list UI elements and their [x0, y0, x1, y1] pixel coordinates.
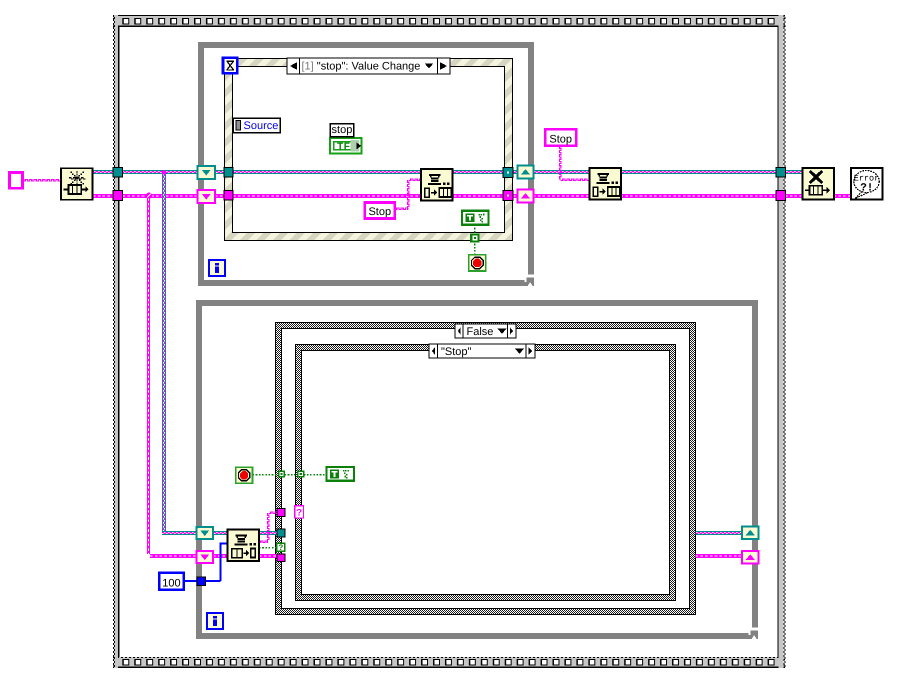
- svg-text:False: False: [467, 326, 494, 338]
- svg-text:?: ?: [278, 543, 283, 552]
- svg-text:TF: TF: [337, 142, 350, 153]
- svg-text:Source: Source: [244, 120, 279, 132]
- svg-text:stop: stop: [332, 124, 353, 136]
- svg-text:100: 100: [162, 577, 180, 589]
- svg-text:?: ?: [296, 507, 302, 518]
- svg-text:[1] "stop": Value Change: [1] "stop": Value Change: [302, 61, 421, 73]
- svg-text:"Stop": "Stop": [441, 346, 472, 358]
- svg-text:Stop: Stop: [549, 133, 572, 145]
- svg-text:Stop: Stop: [368, 206, 391, 218]
- svg-text:?!: ?!: [860, 183, 873, 195]
